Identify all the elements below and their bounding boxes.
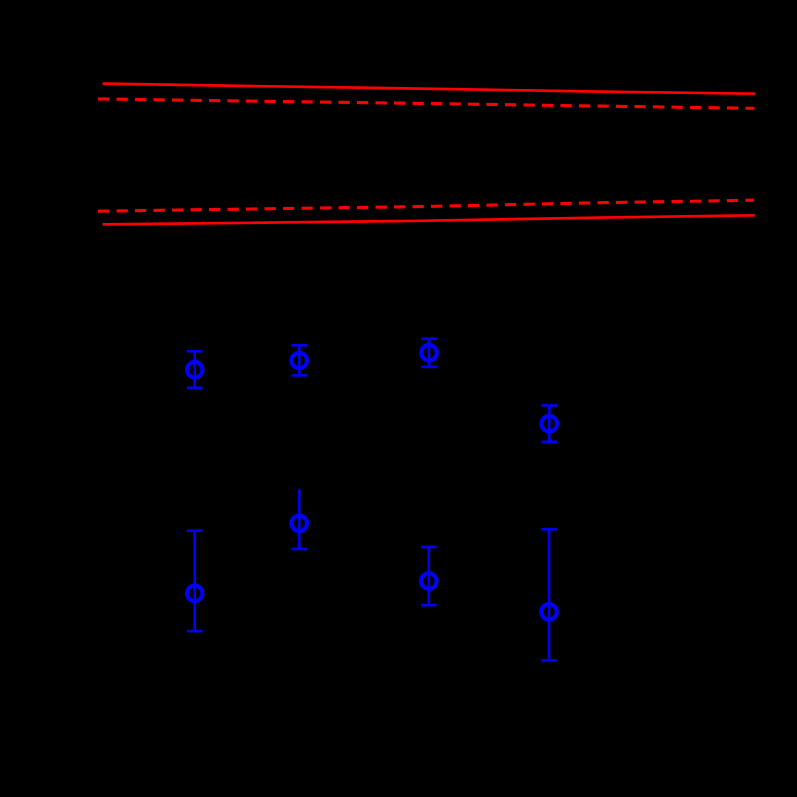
data point H errorbar (541, 529, 557, 660)
data point A errorbar (187, 351, 203, 388)
data point B marker (291, 353, 307, 369)
data point E marker (291, 516, 307, 532)
data point G errorbar (421, 547, 437, 605)
data point D errorbar (541, 405, 557, 441)
data point A marker (187, 362, 203, 378)
bottom dashed red curve (98, 200, 754, 211)
data point G marker (421, 573, 437, 589)
data point C errorbar (421, 339, 437, 367)
bottom solid red curve (103, 215, 755, 224)
data point F errorbar (187, 531, 203, 631)
data point B errorbar (291, 345, 307, 375)
data point C marker (421, 345, 437, 361)
data point E errorbar (no top cap) (291, 489, 307, 549)
data point D marker (541, 416, 557, 432)
data point F marker (187, 586, 203, 602)
top dashed red curve (98, 99, 754, 108)
top solid red curve (103, 84, 756, 94)
data point H marker (541, 604, 557, 620)
